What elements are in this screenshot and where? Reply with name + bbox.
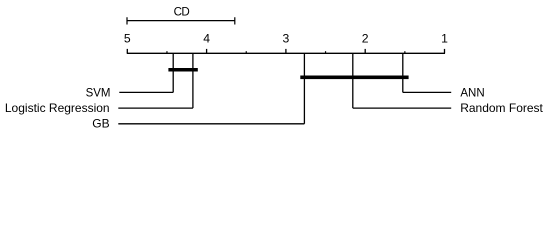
svg-text:3: 3	[283, 32, 290, 46]
ANN drop line	[402, 53, 404, 92]
svg-text:2: 2	[362, 32, 369, 46]
Random Forest connector	[353, 107, 451, 109]
minor tick 2.5	[325, 51, 327, 53]
GB connector	[118, 123, 304, 125]
svg-text:5: 5	[124, 32, 131, 46]
major tick 1	[444, 49, 446, 53]
major tick 4	[206, 49, 208, 53]
SVM drop line	[172, 53, 174, 92]
svg-text:1: 1	[441, 32, 448, 46]
svg-text:GB: GB	[92, 117, 109, 131]
minor tick 4.5	[166, 51, 168, 53]
major tick 3	[285, 49, 287, 53]
major tick 5	[126, 49, 128, 53]
major tick 2	[364, 49, 366, 53]
GB drop line	[303, 53, 305, 124]
svg-text:4: 4	[203, 32, 210, 46]
clique bar GB + Random Forest + ANN	[300, 76, 408, 80]
CD interval bar	[127, 17, 235, 24]
axis line	[127, 52, 445, 54]
svg-text:Random Forest: Random Forest	[460, 101, 543, 115]
ANN connector	[403, 91, 451, 93]
minor tick 3.5	[245, 51, 247, 53]
SVM connector	[119, 91, 173, 93]
svg-text:SVM: SVM	[86, 87, 111, 99]
svg-text:Logistic Regression: Logistic Regression	[5, 101, 110, 115]
svg-text:ANN: ANN	[460, 87, 484, 99]
Logistic Regression connector	[118, 107, 193, 109]
Random Forest drop line	[352, 53, 354, 108]
svg-text:CD: CD	[174, 6, 190, 19]
minor tick 1.5	[404, 51, 406, 53]
Logistic Regression drop line	[192, 53, 194, 108]
clique bar SVM + Logistic Regression	[168, 68, 197, 72]
